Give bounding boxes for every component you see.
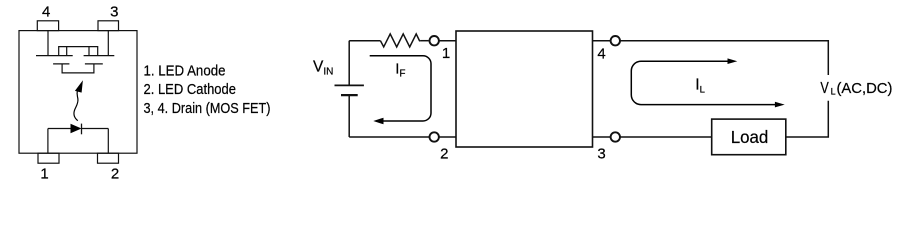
terminal circle 3 — [611, 132, 620, 141]
MOSFET Q1 left drain lead — [47, 31, 49, 56]
wire VL to load — [786, 101, 829, 137]
svg-text:VIN: VIN — [313, 59, 333, 78]
wire terminal 2 to box — [439, 136, 456, 138]
MOSFET Q2 right drain lead — [107, 31, 109, 56]
wire terminal 4 to load top — [621, 41, 829, 75]
svg-text:IL: IL — [695, 77, 705, 96]
LED D1 cathode line — [82, 128, 109, 130]
wire top input — [349, 40, 380, 42]
wire terminal 3 to load — [621, 136, 712, 138]
relay box — [456, 31, 593, 147]
svg-text:2: 2 — [111, 165, 119, 182]
svg-text:3: 3 — [597, 146, 605, 163]
resistor R — [380, 34, 420, 47]
svg-text:L: L — [831, 87, 836, 97]
terminal circle 4 — [611, 36, 620, 45]
MOSFET Q1 gate plate — [53, 63, 69, 65]
LED D1 cathode bar — [81, 124, 83, 135]
MOSFET Q1 channel — [36, 55, 73, 57]
svg-text:1. LED Anode: 1. LED Anode — [144, 64, 226, 80]
svg-text:IF: IF — [395, 60, 405, 79]
LED cathode lead to pin 2 — [107, 129, 109, 154]
svg-text:V: V — [820, 80, 829, 97]
wire terminal 1 to box — [439, 40, 456, 42]
pin 3 — [98, 21, 119, 31]
pin 1 — [38, 153, 59, 163]
light emission arrow — [74, 80, 83, 121]
wire bottom input — [349, 136, 429, 138]
pin 2 — [98, 153, 119, 163]
package outline — [19, 31, 137, 154]
IL current loop arrows — [631, 58, 784, 107]
load box — [712, 119, 786, 155]
wire box to terminal 3 — [593, 136, 611, 138]
battery long plate — [335, 84, 364, 86]
svg-text:(AC,DC): (AC,DC) — [837, 80, 893, 97]
gate interconnect — [62, 64, 94, 73]
terminal circle 1 — [430, 36, 439, 45]
battery Vin top lead — [348, 41, 350, 86]
svg-text:2: 2 — [440, 146, 448, 163]
LED D1 triangle — [71, 124, 82, 134]
svg-text:Load: Load — [731, 127, 769, 147]
wire box to terminal 4 — [593, 40, 611, 42]
MOSFET Q2 channel — [84, 55, 115, 57]
battery short plate — [341, 94, 358, 96]
IF current loop arrow — [370, 56, 431, 125]
svg-text:3: 3 — [110, 4, 118, 21]
svg-text:4: 4 — [42, 4, 50, 21]
LED anode lead to pin 1 — [47, 129, 49, 154]
common source bridge — [59, 47, 98, 56]
pin 4 — [37, 21, 58, 31]
terminal circle 2 — [430, 132, 439, 141]
battery bottom lead — [348, 95, 350, 137]
LED D1 anode line — [48, 128, 71, 130]
svg-text:4: 4 — [597, 46, 605, 63]
svg-text:2. LED Cathode: 2. LED Cathode — [144, 82, 237, 98]
wire resistor to terminal 1 — [420, 40, 428, 42]
svg-text:1: 1 — [40, 165, 48, 182]
svg-text:3, 4. Drain (MOS FET): 3, 4. Drain (MOS FET) — [144, 101, 271, 117]
MOSFET Q2 gate plate — [85, 63, 103, 65]
svg-text:1: 1 — [442, 45, 450, 62]
